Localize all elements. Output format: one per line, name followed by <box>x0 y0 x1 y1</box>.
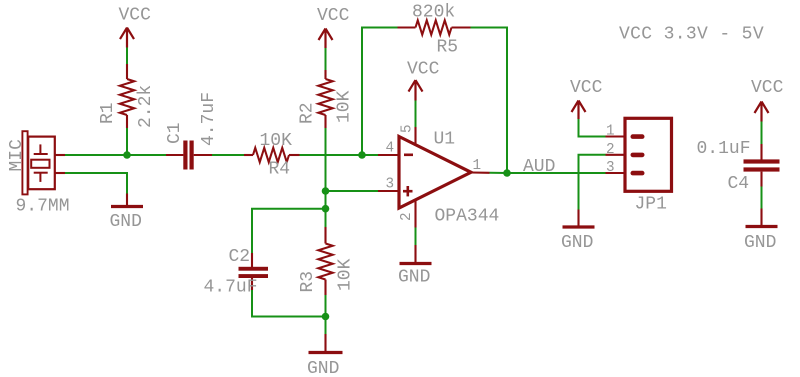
resistor R3 10K <box>298 227 356 295</box>
svg-text:OPA344: OPA344 <box>435 206 500 226</box>
microphone MIC <box>7 131 70 216</box>
wire VCC to R1 <box>126 48 128 65</box>
wire node D to C2 top <box>252 209 326 253</box>
resistor R4 10K <box>244 131 300 180</box>
svg-text:VCC: VCC <box>119 6 152 26</box>
wire VCC to JP1 pin 1 <box>579 119 606 137</box>
wire C4 to GND <box>761 187 763 209</box>
wire mic bottom to GND <box>65 173 127 194</box>
resistor R1 2.2k <box>98 64 156 128</box>
svg-text:0.1uF: 0.1uF <box>697 139 751 159</box>
svg-text:GND: GND <box>307 359 339 377</box>
node B junction (feedback joins inverting input) <box>358 151 366 159</box>
connector JP1 <box>606 118 672 214</box>
power VCC (R1) <box>119 6 152 48</box>
svg-text:R1: R1 <box>98 102 118 124</box>
svg-text:R3: R3 <box>298 271 318 293</box>
wire VCC to R2 <box>325 48 327 70</box>
svg-text:2: 2 <box>606 142 615 158</box>
wire C1 to R4 <box>212 154 244 156</box>
svg-text:10K: 10K <box>335 90 355 123</box>
svg-text:4.7uF: 4.7uF <box>204 278 258 298</box>
svg-text:JP1: JP1 <box>635 195 667 215</box>
svg-text:3: 3 <box>386 177 395 193</box>
capacitor C4 0.1uF <box>697 139 780 194</box>
svg-text:2.2k: 2.2k <box>136 85 156 128</box>
wire output to node F <box>490 172 508 174</box>
resistor R5 820k <box>398 3 471 58</box>
svg-text:C4: C4 <box>728 174 750 194</box>
wire node F to JP1 pin 3 <box>507 172 606 174</box>
svg-text:VCC: VCC <box>317 6 350 26</box>
svg-text:U1: U1 <box>434 130 456 150</box>
svg-text:GND: GND <box>398 267 430 287</box>
svg-text:VCC 3.3V - 5V: VCC 3.3V - 5V <box>619 25 764 45</box>
svg-text:1: 1 <box>473 158 482 174</box>
wire node C to pin 3 <box>326 190 379 192</box>
wire VCC to C4 <box>761 122 763 145</box>
wire R1 to node A <box>126 128 128 155</box>
wire JP1 pin 2 to GND <box>579 155 606 210</box>
svg-text:R4: R4 <box>269 160 291 180</box>
svg-text:GND: GND <box>110 212 142 232</box>
svg-text:820k: 820k <box>412 3 455 23</box>
svg-text:10K: 10K <box>336 258 356 291</box>
ground (U1) <box>398 245 432 287</box>
svg-text:C1: C1 <box>165 122 185 144</box>
svg-text:VCC: VCC <box>751 78 784 98</box>
svg-text:10K: 10K <box>260 131 293 151</box>
svg-text:1: 1 <box>606 124 615 140</box>
wire node C to node D <box>325 191 327 209</box>
node C junction (bias node at pin 3) <box>322 187 330 195</box>
capacitor C2 4.7uF <box>204 247 269 298</box>
svg-text:9.7MM: 9.7MM <box>16 197 70 217</box>
resistor R2 10K <box>298 70 355 128</box>
power VCC (C4) <box>751 78 784 122</box>
wire feedback loop left <box>362 28 398 156</box>
wire VCC to pin 5 <box>415 101 417 128</box>
svg-text:MIC: MIC <box>7 139 27 172</box>
node E junction <box>322 313 330 321</box>
svg-text:4: 4 <box>386 141 395 157</box>
svg-text:5: 5 <box>400 124 416 133</box>
wire R4 to node B and pin 4 <box>300 154 379 156</box>
svg-text:GND: GND <box>744 233 776 253</box>
wire node E to GND <box>325 317 327 335</box>
wire mic top to node A <box>65 154 127 156</box>
node D junction (C2 tap) <box>322 205 330 213</box>
wire R2 down through crossing to node C <box>325 128 327 191</box>
power VCC (U1) <box>407 60 440 101</box>
wire node D to R3 <box>325 209 327 227</box>
op-amp U1 OPA344 <box>378 124 499 227</box>
ground (mic) <box>110 194 144 233</box>
wire feedback loop right <box>471 28 508 174</box>
svg-text:VCC: VCC <box>407 60 440 80</box>
wire node A to C1 <box>127 154 166 156</box>
wire C2 bottom to node E <box>252 290 326 317</box>
svg-text:GND: GND <box>561 233 593 253</box>
power VCC (R2) <box>317 6 350 48</box>
ground (JP1) <box>561 210 595 254</box>
svg-text:4.7uF: 4.7uF <box>199 92 219 146</box>
node A junction <box>123 151 131 159</box>
ground (C4) <box>744 209 778 254</box>
svg-text:VCC: VCC <box>570 78 603 98</box>
wire pin 2 to GND <box>415 228 417 246</box>
svg-text:R2: R2 <box>298 102 318 124</box>
capacitor C1 4.7uF <box>165 92 219 170</box>
ground (R3) <box>307 334 343 377</box>
svg-text:3: 3 <box>606 160 615 176</box>
svg-text:C2: C2 <box>229 247 251 267</box>
wire R3 to node E <box>325 295 327 317</box>
svg-text:2: 2 <box>399 212 415 221</box>
node F junction (output) <box>503 169 511 177</box>
power VCC (JP1) <box>570 78 603 119</box>
svg-text:R5: R5 <box>437 38 459 58</box>
